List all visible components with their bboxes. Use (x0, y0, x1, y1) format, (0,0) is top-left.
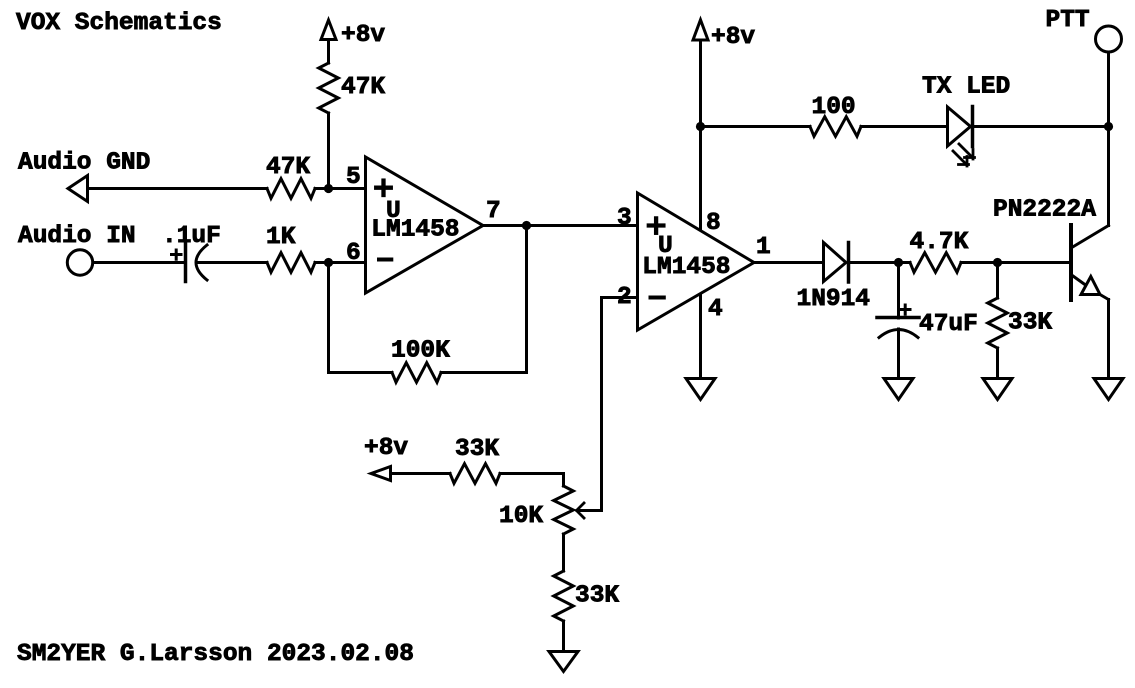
svg-text:VOX Schematics: VOX Schematics (16, 10, 222, 37)
svg-text:Audio GND: Audio GND (18, 150, 150, 177)
svg-text:100: 100 (812, 94, 856, 121)
svg-text:47K: 47K (341, 74, 385, 101)
svg-text:+8v: +8v (711, 24, 755, 51)
svg-text:.1uF: .1uF (162, 223, 221, 250)
svg-text:47uF: 47uF (919, 311, 978, 338)
svg-text:8: 8 (706, 210, 721, 237)
svg-text:1: 1 (756, 234, 771, 261)
svg-text:1N914: 1N914 (797, 286, 871, 313)
svg-text:2: 2 (617, 284, 632, 311)
svg-text:+8v: +8v (341, 22, 385, 49)
svg-text:7: 7 (486, 198, 501, 225)
svg-text:10K: 10K (499, 503, 543, 530)
svg-text:LM1458: LM1458 (371, 217, 459, 244)
svg-text:47K: 47K (266, 154, 310, 181)
svg-text:PN2222A: PN2222A (993, 197, 1096, 224)
svg-text:33K: 33K (1008, 310, 1052, 337)
svg-text:PTT: PTT (1046, 7, 1090, 34)
svg-text:5: 5 (346, 164, 361, 191)
svg-text:100K: 100K (391, 338, 450, 365)
svg-text:+8v: +8v (364, 435, 408, 462)
svg-text:33K: 33K (575, 583, 619, 610)
svg-text:Audio IN: Audio IN (18, 223, 136, 250)
svg-text:SM2YER G.Larsson 2023.02.08: SM2YER G.Larsson 2023.02.08 (17, 641, 414, 668)
svg-text:4.7K: 4.7K (910, 229, 969, 256)
svg-text:TX LED: TX LED (922, 74, 1010, 101)
svg-text:3: 3 (617, 205, 632, 232)
svg-text:LM1458: LM1458 (642, 254, 730, 281)
svg-text:4: 4 (708, 296, 723, 323)
svg-text:1K: 1K (266, 224, 296, 251)
svg-text:6: 6 (346, 240, 361, 267)
svg-text:33K: 33K (455, 436, 499, 463)
